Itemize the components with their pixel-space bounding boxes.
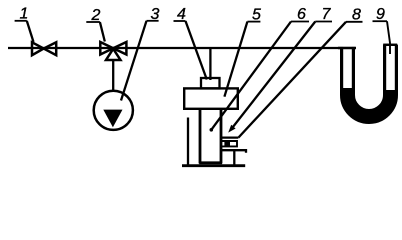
gasket pocket B [221, 141, 237, 146]
label 9 [373, 6, 391, 54]
chamber box 5 [184, 88, 238, 108]
clamp box 4 [201, 78, 220, 88]
wire main pipe [8, 47, 355, 49]
blower 3 [94, 91, 133, 130]
specimen column 6 [199, 109, 222, 164]
valve 1 [32, 42, 56, 55]
wire valve2 to blower [112, 60, 114, 91]
label 1 [15, 6, 34, 43]
label 7 with arrow [228, 6, 332, 132]
shelf line C [221, 150, 246, 153]
stand left wall [187, 118, 189, 166]
label 3 [121, 6, 160, 101]
label 4 [174, 6, 207, 80]
wire pipe to clamp box [209, 48, 211, 80]
label 2 [86, 7, 105, 42]
manometer U-tube 9 [338, 45, 397, 117]
base line [182, 164, 245, 167]
bracket vertical [233, 150, 235, 165]
label 5 [224, 7, 261, 97]
flange line A [221, 136, 238, 138]
three-way valve 2 [100, 42, 126, 60]
label 8 leader [238, 7, 362, 138]
label 6 [210, 6, 310, 131]
